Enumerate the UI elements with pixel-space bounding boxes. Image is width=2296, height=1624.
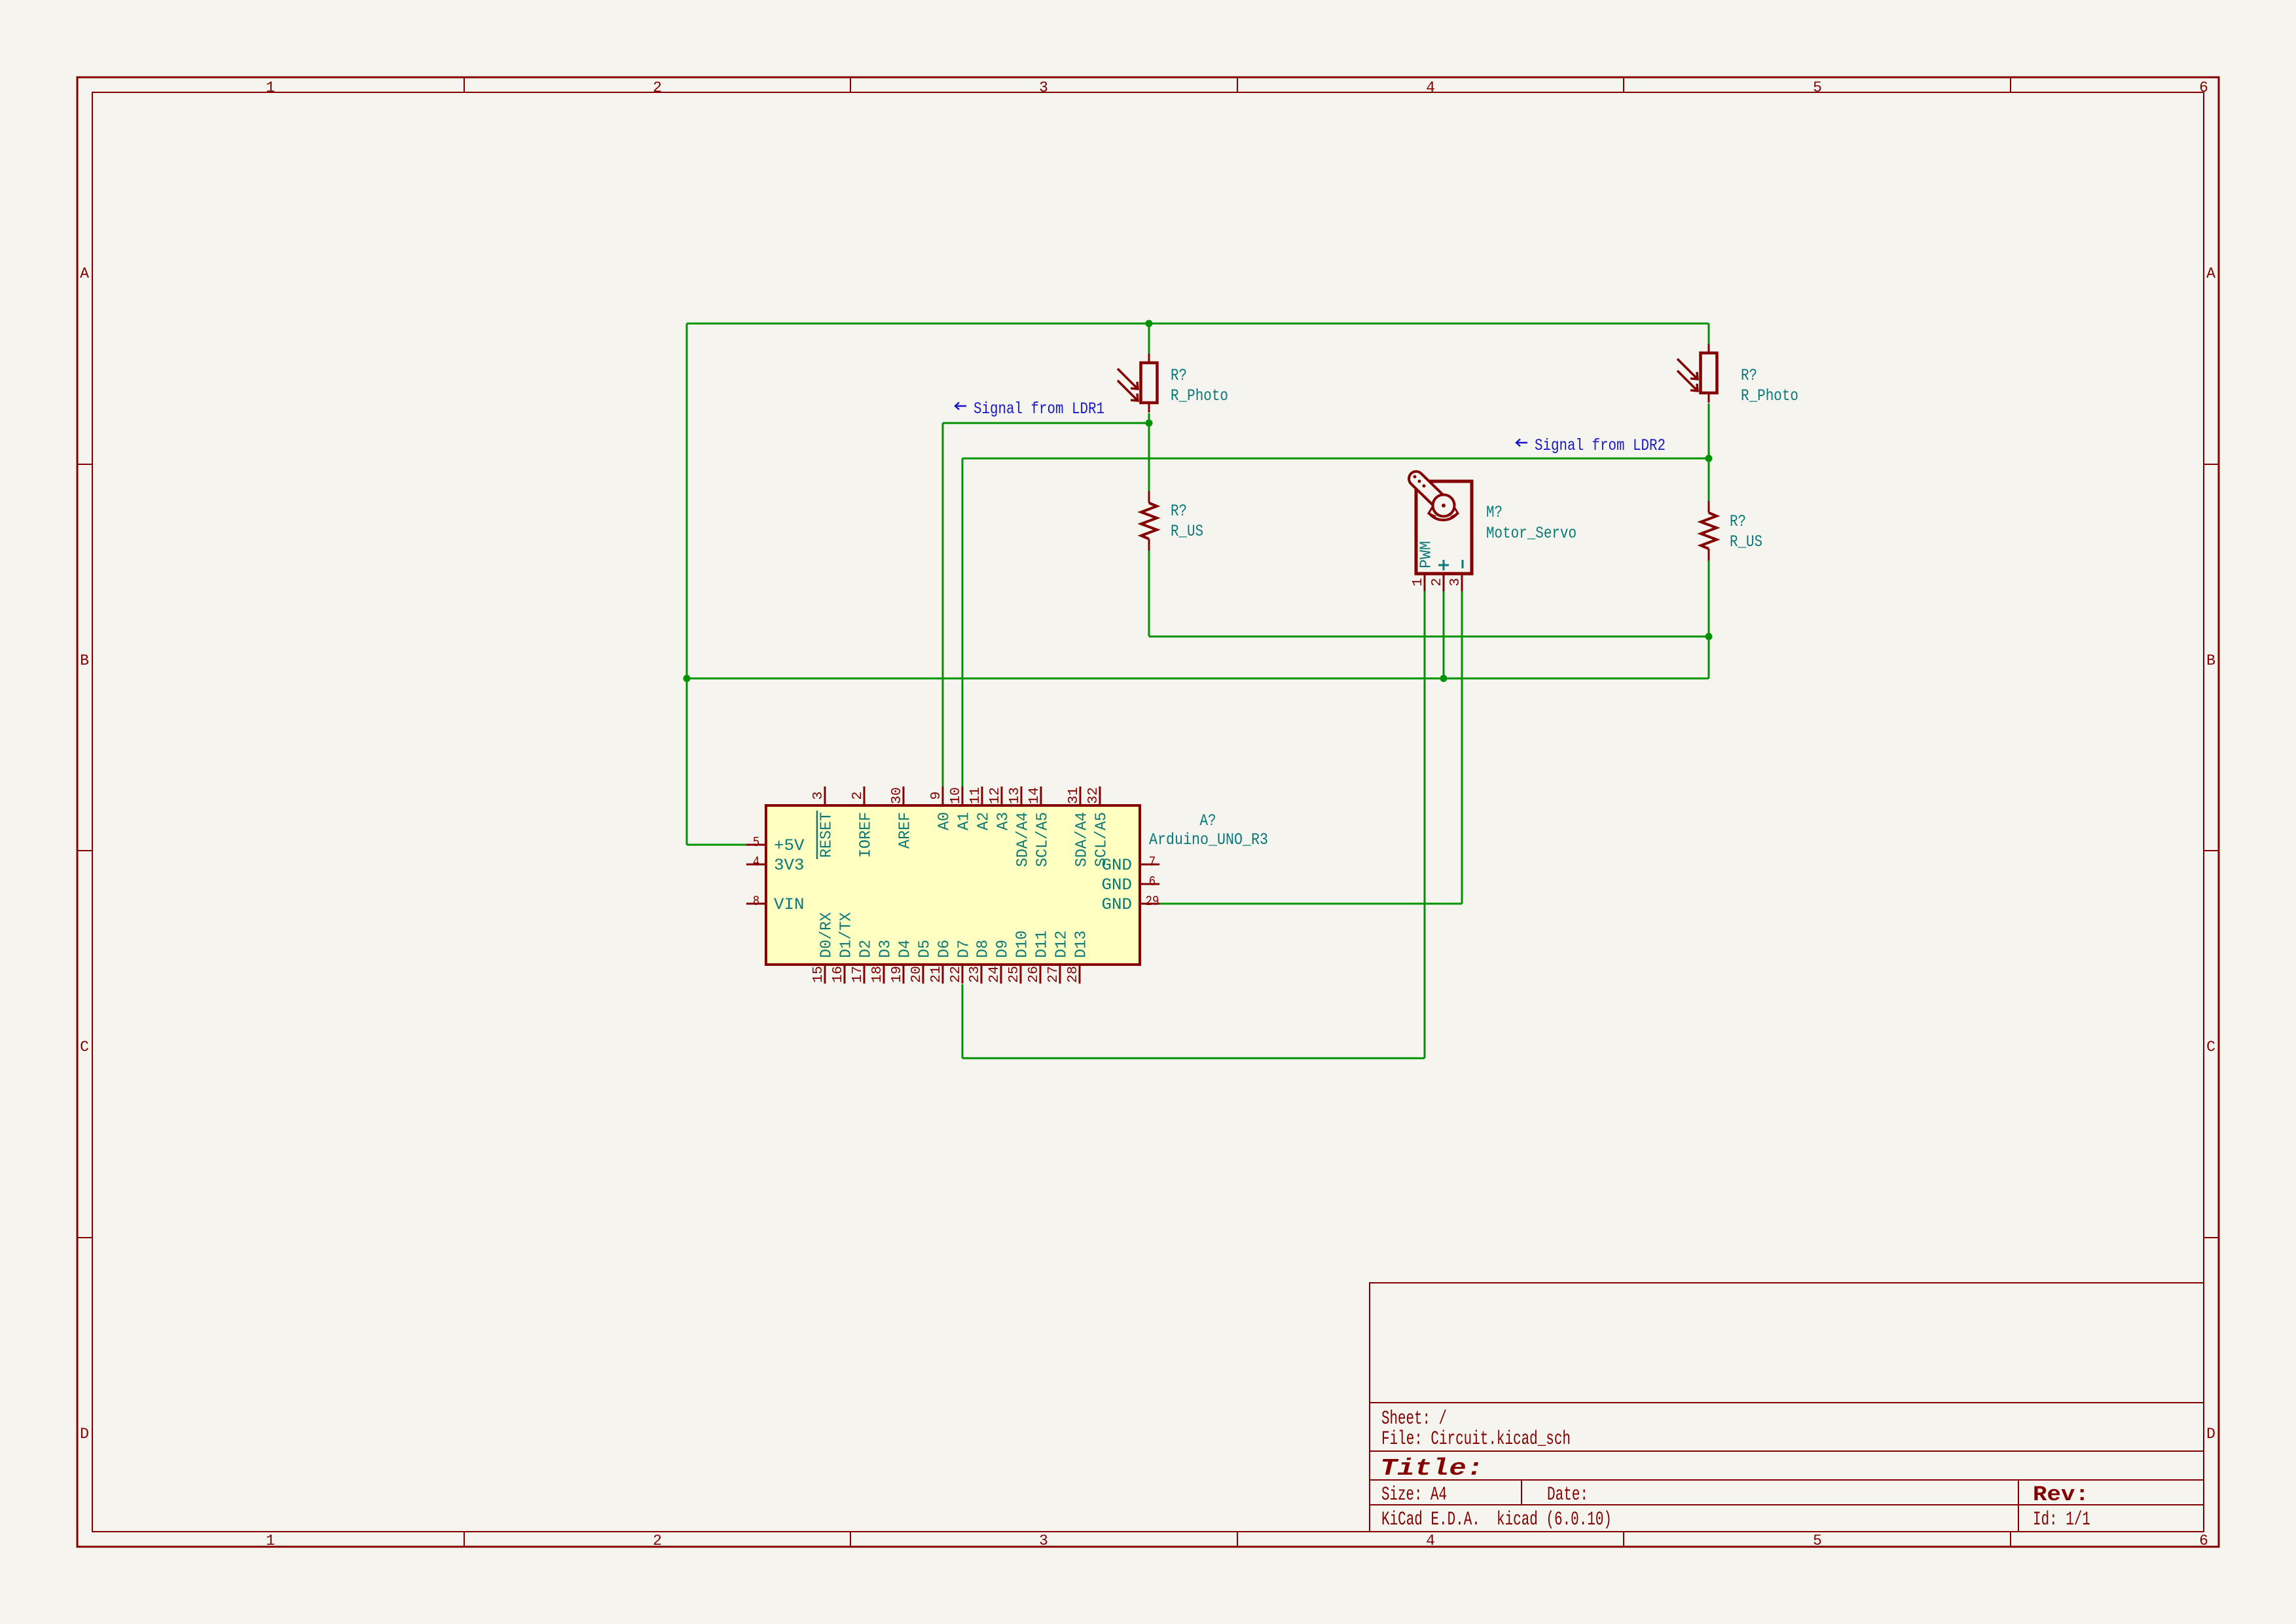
arduino bottom pin 28 (D13) — [1079, 965, 1081, 984]
svg-text:Title:: Title: — [1380, 1455, 1484, 1482]
arduino bottom pin 25 (D10) — [1020, 965, 1022, 984]
junction top rail / R_Photo1 — [1146, 320, 1153, 327]
photoresistor R? (LDR2) — [1677, 344, 1717, 403]
svg-text:B: B — [80, 652, 89, 669]
svg-text:3: 3 — [1039, 79, 1048, 96]
svg-text:1: 1 — [1411, 578, 1426, 587]
svg-text:Sheet: /: Sheet: / — [1381, 1408, 1447, 1430]
wire: stub to Arduino +5V pin 5 — [687, 844, 747, 846]
arduino bottom pin 19 (D4) — [903, 965, 905, 984]
arduino bottom pin 20 (D5) — [922, 965, 924, 984]
svg-text:6: 6 — [2199, 1532, 2208, 1549]
photoresistor R? (LDR1) — [1118, 354, 1157, 413]
svg-text:Signal from LDR2: Signal from LDR2 — [1535, 436, 1666, 455]
arduino left pin 5 (+5V) — [746, 844, 766, 846]
resistor R_US2 pin 2 — [1708, 549, 1710, 561]
svg-text:D: D — [2206, 1426, 2215, 1443]
svg-text:20: 20 — [909, 966, 924, 983]
svg-text:D12: D12 — [1053, 931, 1071, 958]
photoresistor R1 pin 2 — [1148, 403, 1150, 413]
note: Signal from LDR2 — [1516, 439, 1527, 447]
svg-text:PWM: PWM — [1418, 541, 1436, 568]
svg-text:7: 7 — [1149, 855, 1156, 870]
arduino top pin 11 (A2) — [981, 786, 983, 805]
svg-text:R?: R? — [1171, 502, 1187, 521]
svg-text:IOREF: IOREF — [858, 812, 875, 858]
wire: signal from LDR1 to A0 — [943, 422, 1149, 424]
svg-text:14: 14 — [1027, 787, 1042, 804]
svg-text:Size: A4: Size: A4 — [1381, 1484, 1447, 1506]
svg-text:4: 4 — [753, 855, 760, 870]
svg-text:D6: D6 — [936, 940, 954, 958]
svg-text:D13: D13 — [1073, 931, 1091, 958]
svg-text:D5: D5 — [917, 940, 934, 958]
photoresistor R1 pin 1 — [1148, 354, 1150, 363]
arduino bottom pin 22 (D7) — [962, 965, 964, 984]
svg-text:+5V: +5V — [774, 836, 805, 855]
arduino left pin 4 (3V3) — [746, 864, 766, 866]
svg-text:4: 4 — [1426, 79, 1435, 96]
svg-text:2: 2 — [850, 792, 866, 800]
Arduino A? body — [766, 805, 1140, 965]
svg-text:GND: GND — [1102, 876, 1133, 895]
photoresistor R2 pin 2 — [1708, 393, 1710, 403]
svg-text:24: 24 — [987, 966, 1002, 983]
arduino bottom pin 15 (D0/RX) — [824, 965, 826, 984]
svg-text:A1: A1 — [956, 812, 974, 830]
svg-text:2: 2 — [1430, 578, 1445, 587]
wire: servo pin2 + drop — [1443, 591, 1445, 678]
wire: left +5V vertical drop — [686, 323, 688, 845]
svg-text:D: D — [80, 1426, 89, 1443]
svg-text:15: 15 — [811, 966, 826, 983]
motor servo pin 2 (+) — [1443, 574, 1445, 591]
svg-text:9: 9 — [929, 792, 944, 800]
svg-text:Id: 1/1: Id: 1/1 — [2033, 1509, 2090, 1531]
svg-text:31: 31 — [1066, 787, 1082, 804]
arduino top pin 10 (A1) — [962, 786, 964, 805]
svg-text:D2: D2 — [858, 940, 875, 958]
svg-text:6: 6 — [2199, 79, 2208, 96]
arduino bottom pin 21 (D6) — [942, 965, 944, 984]
arduino top pin 12 (A3) — [1001, 786, 1003, 805]
svg-text:VIN: VIN — [774, 895, 805, 914]
svg-text:19: 19 — [890, 966, 905, 983]
svg-text:D3: D3 — [877, 940, 895, 958]
svg-text:1: 1 — [266, 79, 275, 96]
svg-text:6: 6 — [1149, 875, 1156, 890]
arduino left pin 8 (VIN) — [746, 903, 766, 905]
svg-text:29: 29 — [1146, 895, 1159, 910]
svg-text:13: 13 — [1008, 787, 1023, 804]
junction +5V / lower rail — [683, 675, 691, 682]
svg-text:2: 2 — [653, 79, 662, 96]
junction mid rail — [1705, 633, 1713, 640]
arduino right pin 7 (GND) — [1140, 864, 1159, 866]
arduino top pin 31 (SDA/A4) — [1080, 786, 1082, 805]
svg-text:Date:: Date: — [1547, 1484, 1588, 1506]
svg-text:17: 17 — [850, 966, 866, 983]
svg-text:12: 12 — [988, 787, 1003, 804]
note: Signal from LDR1 — [955, 403, 966, 410]
svg-text:5: 5 — [753, 836, 760, 851]
resistor R_US2 zigzag body — [1701, 513, 1717, 549]
svg-text:3: 3 — [1448, 578, 1463, 587]
arduino top pin 9 (A0) — [942, 786, 944, 805]
svg-text:30: 30 — [890, 787, 905, 804]
svg-text:C: C — [2206, 1039, 2215, 1056]
svg-text:3: 3 — [1039, 1532, 1048, 1549]
svg-text:D4: D4 — [897, 940, 915, 958]
photoresistor R2 light arrows — [1677, 359, 1698, 379]
motor servo pin 1 (PWM) — [1424, 574, 1426, 591]
svg-text:RESET: RESET — [818, 812, 836, 858]
svg-text:26: 26 — [1027, 966, 1042, 983]
svg-text:8: 8 — [753, 895, 760, 910]
resistor R_US2 pin 1 — [1708, 501, 1710, 513]
arduino right pin 29 (GND) — [1140, 903, 1159, 905]
arduino top pin 14 (SCL/A5) — [1040, 786, 1042, 805]
svg-text:GND: GND — [1102, 856, 1133, 875]
svg-text:18: 18 — [870, 966, 885, 983]
resistor R_US1 zigzag body — [1141, 503, 1157, 539]
svg-text:5: 5 — [1813, 79, 1822, 96]
svg-text:3V3: 3V3 — [774, 856, 805, 875]
svg-text:C: C — [80, 1039, 89, 1056]
svg-text:R?: R? — [1171, 366, 1187, 385]
svg-text:AREF: AREF — [897, 812, 915, 849]
frame row dividers — [77, 464, 92, 465]
svg-text:3: 3 — [811, 792, 826, 800]
motor servo output gear circle — [1433, 495, 1455, 517]
wire: mid rail between dividers — [1149, 636, 1709, 638]
svg-text:32: 32 — [1086, 787, 1101, 804]
arduino bottom pin 17 (D2) — [864, 965, 866, 984]
junction LDR1 signal — [1146, 420, 1153, 427]
svg-text:D0/RX: D0/RX — [818, 912, 836, 958]
svg-text:D8: D8 — [975, 940, 993, 958]
svg-text:11: 11 — [968, 787, 983, 804]
junction LDR2 signal — [1705, 455, 1713, 462]
svg-text:A2: A2 — [975, 812, 993, 830]
wire: servo pin3 - to GND29 — [1461, 591, 1463, 904]
arduino top pin 32 (SCL/A5) — [1099, 786, 1101, 805]
svg-text:M?: M? — [1486, 503, 1503, 522]
svg-text:23: 23 — [968, 966, 983, 983]
svg-text:D1/TX: D1/TX — [838, 912, 856, 958]
svg-text:Arduino_UNO_R3: Arduino_UNO_R3 — [1149, 830, 1268, 849]
svg-text:SDA/A4: SDA/A4 — [1015, 812, 1032, 867]
photoresistor R2 pin 1 — [1708, 344, 1710, 353]
svg-text:27: 27 — [1046, 966, 1061, 983]
arduino bottom pin 26 (D11) — [1040, 965, 1042, 984]
wire: signal from LDR2 to A1 — [962, 458, 1709, 460]
svg-text:SDA/A4: SDA/A4 — [1074, 812, 1091, 867]
motor servo M? body — [1416, 481, 1472, 574]
title block outline and dividers — [1370, 1283, 2204, 1532]
svg-text:A?: A? — [1200, 811, 1216, 830]
svg-text:A: A — [80, 265, 89, 282]
arduino bottom pin 18 (D3) — [883, 965, 885, 984]
photoresistor R1 light arrows — [1118, 369, 1138, 389]
svg-text:R_US: R_US — [1730, 532, 1762, 551]
wire: LDR2 divider chain (R_Photo2 to R_US2 column) — [1708, 323, 1710, 344]
svg-text:5: 5 — [1813, 1532, 1822, 1549]
svg-text:KiCad E.D.A. kicad (6.0.10): KiCad E.D.A. kicad (6.0.10) — [1381, 1509, 1612, 1531]
svg-text:A: A — [2206, 265, 2215, 282]
arduino bottom pin 24 (D9) — [1000, 965, 1002, 984]
svg-text:D11: D11 — [1034, 931, 1051, 958]
photoresistor R1 body — [1141, 363, 1157, 403]
svg-text:R_US: R_US — [1171, 522, 1203, 541]
svg-text:28: 28 — [1066, 966, 1081, 983]
svg-text:D9: D9 — [994, 940, 1012, 958]
svg-text:A3: A3 — [995, 812, 1013, 830]
svg-text:Rev:: Rev: — [2033, 1483, 2089, 1507]
svg-text:R?: R? — [1741, 366, 1757, 385]
motor servo pin 3 (-) — [1461, 574, 1463, 591]
wire: +5V top rail — [687, 323, 1709, 325]
svg-text:Signal from LDR1: Signal from LDR1 — [974, 399, 1104, 418]
frame column dividers — [464, 77, 465, 92]
svg-text:R?: R? — [1730, 512, 1746, 531]
wire: servo pin1 PWM drop to D7 route — [1424, 591, 1426, 1058]
svg-text:A0: A0 — [936, 812, 954, 830]
arduino top pin 13 (SDA/A4) — [1021, 786, 1023, 805]
svg-text:SCL/A5: SCL/A5 — [1034, 812, 1052, 867]
resistor R_US1 pin 1 — [1148, 491, 1150, 503]
svg-text:16: 16 — [831, 966, 846, 983]
motor servo horn holes — [1413, 475, 1417, 479]
svg-text:21: 21 — [929, 966, 944, 983]
svg-text:D7: D7 — [956, 940, 974, 958]
svg-text:4: 4 — [1426, 1532, 1435, 1549]
servo pin name + — [1438, 564, 1449, 566]
motor servo rotation arc arrow — [1429, 513, 1457, 520]
motor servo horn (capsule) — [1416, 479, 1440, 502]
arduino bottom pin 16 (D1/TX) — [844, 965, 846, 984]
arduino top pin 2 (IOREF) — [864, 786, 866, 805]
wire: LDR1 divider chain (R_Photo1 to R_US1 column) — [1148, 323, 1150, 354]
svg-text:D10: D10 — [1014, 931, 1032, 958]
svg-text:Motor_Servo: Motor_Servo — [1486, 524, 1576, 543]
svg-text:B: B — [2206, 652, 2215, 669]
arduino bottom pin 23 (D8) — [981, 965, 983, 984]
junction servo + / lower rail — [1440, 675, 1448, 682]
RESET overbar — [816, 811, 818, 859]
svg-text:R_Photo: R_Photo — [1741, 386, 1798, 405]
arduino bottom pin 27 (D12) — [1059, 965, 1061, 984]
wire: lower rail to servo + — [687, 678, 1709, 680]
svg-text:10: 10 — [949, 787, 964, 804]
arduino top pin 3 (RESET) — [824, 786, 826, 805]
svg-text:1: 1 — [266, 1532, 275, 1549]
svg-text:2: 2 — [653, 1532, 662, 1549]
svg-text:R_Photo: R_Photo — [1171, 386, 1228, 405]
svg-text:GND: GND — [1102, 895, 1133, 914]
servo pin name - — [1462, 560, 1464, 568]
svg-text:File: Circuit.kicad_sch: File: Circuit.kicad_sch — [1381, 1428, 1571, 1450]
svg-text:22: 22 — [949, 966, 964, 983]
arduino right pin 6 (GND) — [1140, 883, 1159, 885]
svg-text:25: 25 — [1007, 966, 1022, 983]
arduino top pin 30 (AREF) — [903, 786, 905, 805]
resistor R_US1 pin 2 — [1148, 539, 1150, 551]
photoresistor R2 body — [1701, 353, 1717, 393]
